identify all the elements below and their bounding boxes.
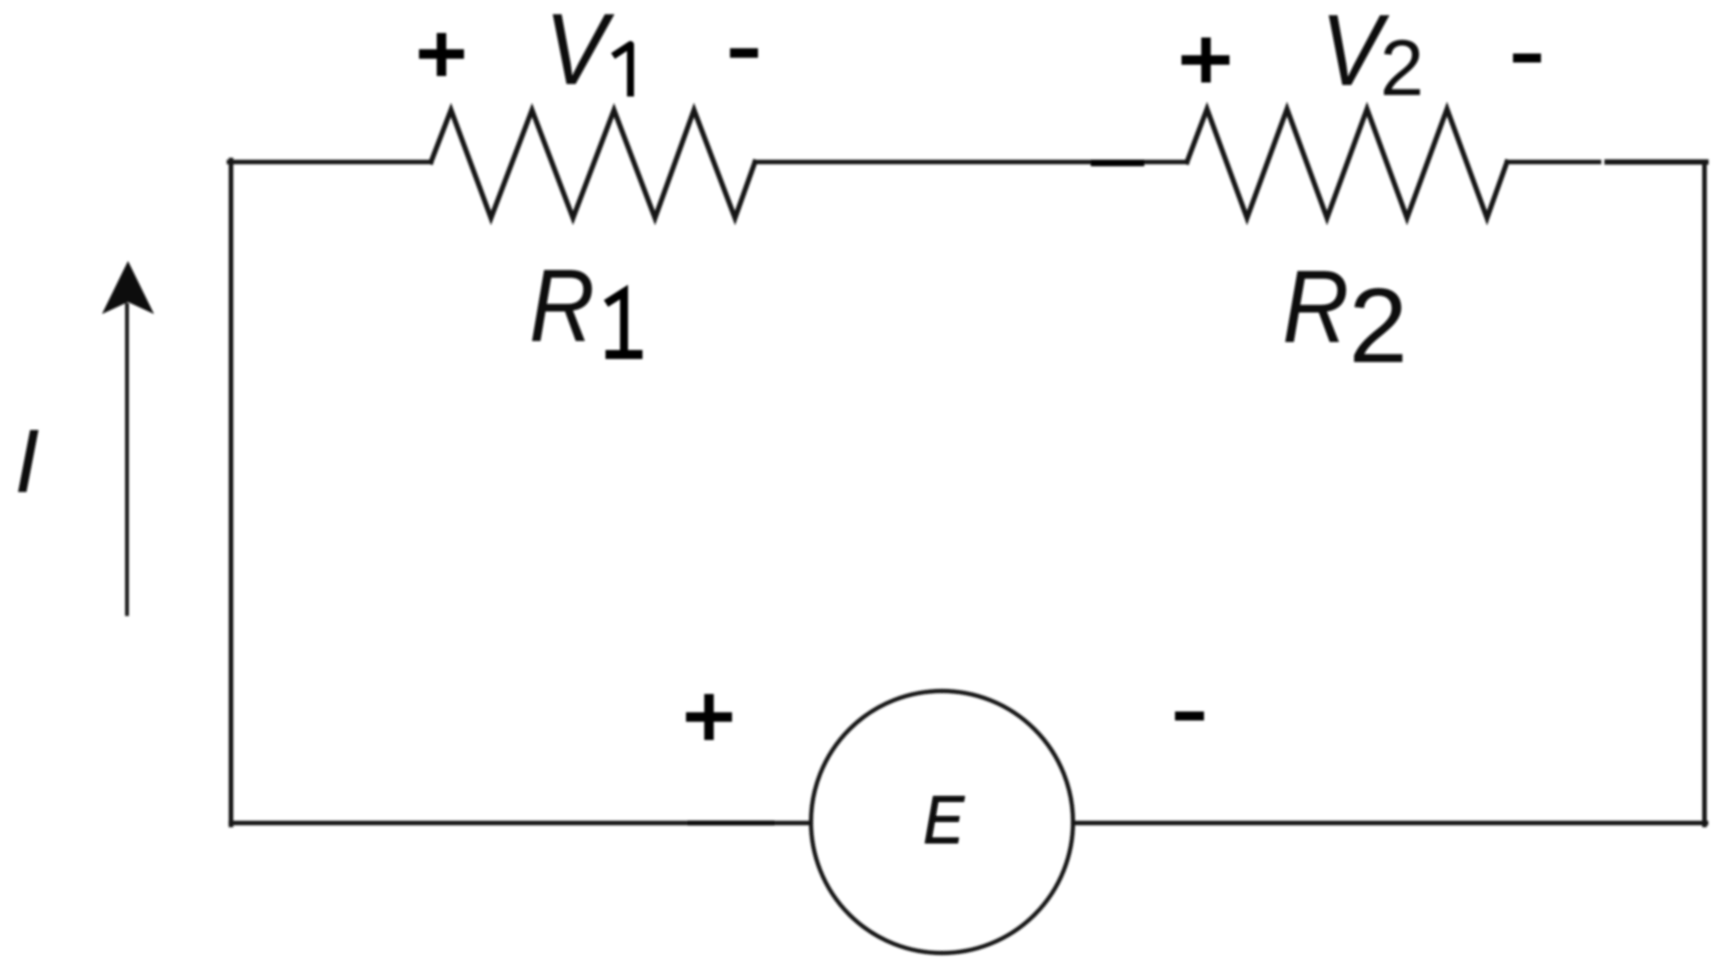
current arrow shaft: [125, 303, 129, 616]
label R2 letter R: [1282, 249, 1349, 364]
label V2 letter V: [1321, 0, 1390, 107]
svg-text:2: 2: [1380, 23, 1424, 112]
wire top-right segment after gap: [1607, 159, 1706, 164]
wire top-left horizontal: [229, 160, 431, 165]
svg-text:E: E: [923, 781, 965, 858]
wire overlay dash on top-middle: [1094, 160, 1141, 167]
label V1 subscript 1: [613, 45, 631, 97]
label E: [923, 781, 965, 858]
wire overlay dash on bottom-left: [690, 821, 772, 826]
svg-text:2: 2: [1349, 267, 1408, 385]
wire right vertical: [1702, 162, 1707, 825]
svg-text:R: R: [529, 248, 594, 364]
plus sign at source left: [686, 694, 732, 740]
voltage source E circle: [811, 691, 1073, 953]
svg-text:V: V: [545, 0, 615, 106]
label V1 letter V: [545, 0, 615, 106]
wire bottom-right horizontal: [1074, 821, 1706, 826]
resistor R1: [431, 110, 755, 218]
plus sign at R2 left: [1182, 38, 1230, 83]
minus sign at R1 right: [730, 48, 758, 58]
wire left vertical: [229, 160, 234, 825]
current arrow head: [102, 261, 154, 314]
resistor R2: [1187, 109, 1507, 218]
minus sign at R2 right: [1513, 54, 1541, 63]
svg-text:I: I: [15, 412, 40, 512]
label R1 letter R: [529, 248, 594, 364]
plus sign at R1 left: [419, 33, 464, 76]
wire top-middle: [755, 160, 1187, 165]
label R1 subscript 1: [606, 292, 643, 355]
wire bottom-left horizontal: [231, 821, 810, 826]
wire top-right segment before gap: [1507, 160, 1599, 165]
svg-text:R: R: [1282, 249, 1349, 364]
minus sign at source right: [1175, 712, 1204, 721]
